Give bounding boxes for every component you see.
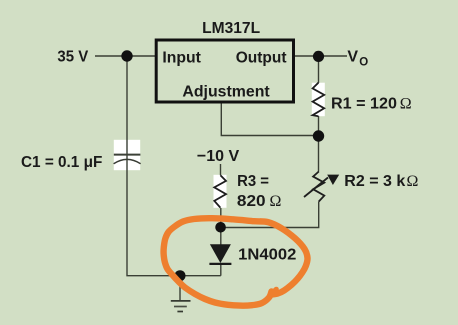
svg-text:Input: Input (162, 49, 201, 66)
svg-text:O: O (359, 56, 368, 68)
svg-text:Output: Output (236, 49, 287, 66)
svg-text:Adjustment: Adjustment (182, 83, 270, 100)
svg-text:−10 V: −10 V (197, 148, 240, 165)
svg-text:Ω: Ω (400, 96, 412, 113)
svg-text:R1 = 120: R1 = 120 (331, 96, 397, 113)
svg-text:R3 =: R3 = (237, 173, 269, 190)
svg-text:C1 = 0.1 μF: C1 = 0.1 μF (21, 154, 103, 171)
svg-text:R2 = 3 k: R2 = 3 k (344, 173, 405, 190)
svg-text:V: V (347, 48, 358, 65)
svg-text:Ω: Ω (270, 193, 282, 210)
svg-text:1N4002: 1N4002 (238, 247, 296, 264)
svg-text:Ω: Ω (407, 173, 419, 190)
svg-text:35 V: 35 V (57, 49, 88, 66)
svg-text:LM317L: LM317L (202, 20, 260, 37)
svg-text:820: 820 (237, 193, 266, 210)
